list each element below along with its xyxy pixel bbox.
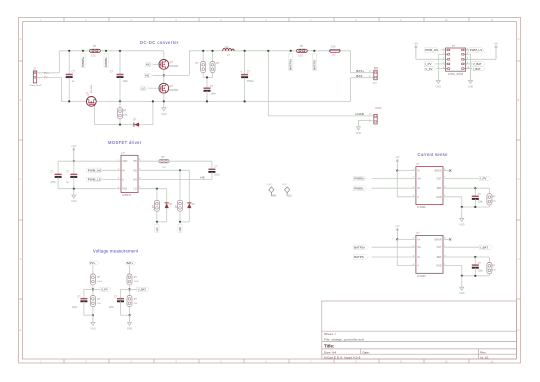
wire phase node (163, 69, 165, 83)
capacitor C6 driver bulk (73, 161, 75, 174)
svg-text:IRF4905: IRF4905 (91, 84, 93, 93)
svg-text:PWRS+: PWRS+ (354, 177, 365, 181)
svg-text:BAT-: BAT- (356, 74, 363, 78)
frame column ticks and numbers (63, 18, 65, 22)
resistor R bottom (BAT divider) (127, 296, 132, 307)
power symbol +5V (BAT side) (396, 228, 398, 239)
junction gnd net (461, 206, 463, 208)
global label PWRS+ (353, 176, 366, 180)
svg-text:Rev:: Rev: (480, 350, 486, 354)
svg-text:HI: HI (122, 169, 125, 172)
svg-text:100n: 100n (211, 93, 217, 96)
svg-text:100n: 100n (214, 174, 220, 177)
svg-text:PWRS-: PWRS- (104, 57, 108, 67)
transistor Q1 reverse-protection MOSFET (86, 97, 96, 107)
svg-text:V_BAT: V_BAT (473, 62, 482, 66)
wire LOAD branch (267, 51, 269, 116)
junction PWRS+ tap (82, 50, 84, 52)
power symbol +5V right (495, 46, 497, 60)
resistor R7 HO gate (178, 200, 183, 211)
capacitor C2 (119, 51, 121, 74)
svg-text:BATPS+: BATPS+ (354, 245, 365, 249)
svg-text:BATPS-: BATPS- (312, 59, 316, 70)
svg-text:OUT: OUT (437, 177, 443, 180)
svg-text:V-: V- (417, 265, 419, 268)
global label I_PV (479, 176, 491, 180)
svg-text:REF: REF (437, 187, 442, 190)
resistor R top (PV divider) (90, 274, 95, 285)
svg-text:100n: 100n (478, 201, 484, 204)
global label LO (vertical, to LS fet) (155, 224, 159, 232)
svg-text:+5V: +5V (414, 42, 419, 45)
svg-text:+5V: +5V (494, 42, 499, 45)
global label V_PV (93, 288, 100, 290)
junction HO pair bottom (179, 221, 181, 223)
svg-text:IN-: IN- (417, 187, 420, 190)
diode D3 HO gate (187, 202, 191, 204)
wire HS pin to bootstrap cap (138, 178, 212, 180)
junction R2 bottom (119, 124, 121, 126)
wire switch-node rail (189, 50, 350, 52)
junction LS source / gnd stub (163, 100, 165, 102)
svg-text:Q?: Q? (86, 92, 89, 96)
svg-text:GND: GND (161, 113, 167, 116)
svg-text:HO: HO (272, 194, 276, 198)
capacitor C5 driver bypass (57, 161, 59, 174)
wire to gnd (129, 307, 131, 316)
ground at LOAD (357, 120, 359, 126)
junction R4 top (211, 50, 213, 52)
resistor R5 bootstrap (159, 160, 169, 163)
global label I_BAT (479, 245, 492, 249)
wire LS source to rail (163, 93, 165, 101)
svg-text:GND: GND (459, 292, 465, 295)
svg-text:PWM_HS: PWM_HS (425, 48, 438, 52)
wire PV+ from J1 (37, 72, 60, 74)
wire gnd left (438, 53, 445, 55)
svg-text:+5V: +5V (395, 225, 400, 228)
no-connect on /SHDN (443, 238, 449, 240)
svg-text:LO: LO (133, 188, 136, 191)
capacitor C7 bootstrap (208, 168, 215, 170)
wire top rail PV+ (59, 50, 164, 52)
svg-text:GND: GND (71, 200, 77, 203)
ground driver (73, 189, 75, 195)
junction driver gnd (73, 188, 75, 190)
svg-text:V_BAT: V_BAT (138, 288, 147, 292)
resistor R4 snubber (212, 51, 214, 62)
wire OUT to label I_BAT (443, 246, 479, 248)
global label BATPS- (vertical) (312, 53, 316, 71)
wire gnd stub (92, 314, 94, 317)
diode D1 (133, 123, 135, 127)
inductor L1 (223, 48, 235, 50)
svg-text:REF: REF (437, 256, 442, 259)
capacitor C REF filter (PV side) (472, 195, 479, 197)
junction HO branch (179, 169, 181, 171)
wire VDD rail (58, 160, 121, 162)
svg-text:BAT: BAT (374, 67, 379, 70)
svg-text:HS: HS (133, 178, 137, 181)
wire bootstrap to C7 (169, 160, 212, 162)
power symbol +5V (PV side) (396, 160, 398, 171)
junction C3 top (244, 50, 246, 52)
svg-text:DC-DC converter: DC-DC converter (140, 40, 179, 45)
svg-text:MOSFET driver: MOSFET driver (108, 140, 142, 145)
resistor R6 LO gate (154, 200, 159, 211)
wire PV+ to divider (92, 265, 94, 274)
global label HS on phase (144, 73, 152, 77)
wire +5V left (416, 58, 446, 60)
svg-text:PWM_LS: PWM_LS (470, 48, 482, 52)
global label V_BAT (130, 288, 137, 290)
shunt resistor R_PV with kelvin taps (90, 49, 101, 52)
ground (BAT divider) (129, 316, 131, 322)
shunt resistor R_BAT with kelvin taps (297, 49, 308, 52)
wire V+ / V- supply (397, 238, 416, 240)
global label LO (LS gate) (141, 86, 149, 90)
svg-text:100n: 100n (72, 306, 78, 309)
junction phase node (163, 74, 165, 76)
svg-text:LT1999: LT1999 (417, 274, 426, 278)
svg-text:HO: HO (146, 63, 151, 67)
svg-text:Id: 1/1: Id: 1/1 (480, 355, 489, 359)
global label PWM_HS at connector (424, 48, 439, 52)
global label PWM_LS at connector (469, 48, 484, 52)
svg-text:D: D (20, 258, 22, 261)
svg-text:GND: GND (356, 132, 362, 135)
svg-text:LO: LO (155, 227, 159, 232)
junction divider bottom (128, 314, 130, 316)
svg-text:IN+: IN+ (417, 177, 421, 180)
svg-text:LT1999: LT1999 (417, 205, 426, 209)
svg-text:1500u: 1500u (247, 80, 255, 83)
wire driver gnd rail (58, 188, 121, 190)
svg-text:GND: GND (468, 85, 474, 88)
svg-text:Screw_01x02: Screw_01x02 (30, 85, 43, 87)
svg-text:GND: GND (436, 265, 442, 268)
junction divider bottom (92, 314, 94, 316)
power flag PFLG on HO (269, 187, 274, 193)
svg-text:Date:: Date: (363, 350, 370, 354)
svg-text:I_BAT: I_BAT (473, 67, 481, 71)
fuse F1 (330, 49, 341, 52)
wire PV+ riser (58, 51, 60, 73)
svg-text:VSS: VSS (122, 188, 127, 191)
no-connect on /SHDN (443, 170, 449, 172)
junction R3 top (202, 50, 204, 52)
svg-text:PWM_LS: PWM_LS (88, 178, 101, 182)
transistor Q4 low-side MOSFET (159, 83, 169, 93)
power symbol +12V (73, 148, 75, 161)
svg-text:HB: HB (133, 160, 137, 163)
global label HO (vertical, to HS fet) (178, 224, 182, 232)
svg-text:/SHDN: /SHDN (434, 170, 442, 173)
svg-text:BATPS+: BATPS+ (289, 58, 293, 70)
wire gnd right (466, 53, 471, 55)
junction V+ rail (396, 170, 398, 172)
title block (322, 301, 517, 359)
svg-text:Current sense: Current sense (418, 152, 449, 157)
svg-text:100n: 100n (109, 306, 115, 309)
svg-text:/SHDN: /SHDN (434, 238, 442, 241)
global label I_BAT at connector (472, 66, 485, 70)
svg-text:0.01: 0.01 (91, 55, 96, 58)
svg-text:V_PV: V_PV (101, 288, 108, 292)
svg-text:KiCad E.D.A. kicad 4.0.6: KiCad E.D.A. kicad 4.0.6 (324, 355, 361, 359)
wire REF filter (443, 187, 489, 189)
svg-text:Title:: Title: (324, 344, 335, 349)
svg-text:I_BAT: I_BAT (480, 245, 488, 249)
wire HO gate drive (138, 169, 189, 171)
ground (BAT side) (461, 281, 463, 287)
svg-text:100n: 100n (123, 80, 129, 83)
svg-text:HO: HO (133, 169, 137, 172)
svg-text:OUT: OUT (437, 246, 443, 249)
svg-text:LOAD: LOAD (375, 107, 382, 110)
svg-text:22u: 22u (225, 45, 230, 49)
svg-text:100n: 100n (50, 181, 56, 184)
global label PWRS+ (vertical) (81, 53, 85, 68)
junction REF cap (474, 187, 476, 189)
junction cap bottom (474, 206, 476, 208)
capacitor C4 snubber (204, 87, 211, 89)
svg-text:LO: LO (288, 194, 291, 198)
svg-text:C: C (20, 178, 22, 181)
wire HO pair join (180, 221, 189, 223)
junction LO pair bottom (156, 221, 158, 223)
wire +5V right (466, 58, 496, 60)
junction gate-pullup to rail (152, 100, 154, 102)
ground left of connector (437, 74, 439, 80)
global label PV+ (89, 261, 99, 265)
wire GND pin joins filter bottom (443, 265, 462, 267)
wire V+ / V- supply (397, 170, 416, 172)
svg-text:C: C (518, 178, 520, 181)
svg-text:VDD: VDD (122, 160, 127, 163)
ground (PV side) (461, 212, 463, 218)
svg-text:FLG?: FLG? (282, 184, 288, 186)
global label PWRS- (vertical) (104, 53, 108, 68)
junction C3 bottom (244, 100, 246, 102)
wire LO gate drive (138, 188, 167, 190)
junction BATPS- tap (313, 50, 315, 52)
svg-text:GND: GND (436, 196, 442, 199)
resistor R REF load (PV side) (488, 188, 490, 194)
global label PWM_LS (87, 177, 103, 181)
svg-text:GND: GND (90, 327, 96, 330)
connector P1 controller header 2x5 (446, 48, 466, 71)
junction cap bottom (474, 275, 476, 277)
connector BAT screw terminal (374, 70, 377, 80)
op-amp U1 gate driver LM5107 (121, 155, 138, 192)
ground right of connector (470, 74, 472, 80)
global label I_PV at connector (424, 62, 436, 66)
junction REF cap (474, 256, 476, 258)
svg-text:HO: HO (178, 226, 182, 231)
junction C1 bottom (68, 100, 70, 102)
global label HO (HS gate) (145, 62, 153, 66)
power symbol +5V left (415, 46, 417, 60)
svg-text:File: charge_controller.sch: File: charge_controller.sch (324, 337, 364, 341)
svg-text:+5V: +5V (395, 156, 400, 159)
svg-text:IN-: IN- (417, 256, 420, 259)
global label BAT+ (126, 261, 136, 265)
global label PWM_HS (87, 168, 103, 172)
wire BAT- return (351, 77, 374, 79)
svg-text:IRF2805: IRF2805 (170, 90, 180, 92)
svg-text:15A: 15A (331, 45, 336, 48)
capacitor C filter (BAT divider) (121, 288, 130, 290)
connector J1 PV input (33, 71, 36, 83)
svg-text:Sheet: /: Sheet: / (324, 332, 336, 336)
capacitor C filter (PV divider) (84, 288, 93, 290)
svg-text:I_PV: I_PV (480, 177, 487, 181)
wire to BAT+ (350, 51, 352, 73)
svg-text:I_PV: I_PV (425, 62, 432, 66)
svg-text:LM5107: LM5107 (122, 193, 132, 197)
svg-text:Voltage measurement: Voltage measurement (93, 248, 139, 253)
capacitor C3 output (244, 51, 246, 75)
junction PWRS- tap (105, 50, 107, 52)
global label BATPS+ (vertical) (289, 53, 293, 71)
wire REF filter (443, 256, 489, 258)
global label BATPS- (353, 255, 368, 259)
svg-text:PWRS-: PWRS- (354, 186, 364, 190)
svg-text:GND: GND (127, 327, 133, 330)
wire PV- from J1 (37, 77, 62, 79)
resistor R bottom (PV divider) (90, 296, 95, 307)
wire HB pin to bootstrap resistor (138, 160, 159, 162)
wire phase to switch rail (164, 74, 190, 76)
junction snubber mid (206, 76, 208, 78)
svg-text:BATPS-: BATPS- (354, 255, 364, 259)
svg-text:PWM_HS: PWM_HS (88, 168, 102, 172)
frame row ticks and letters (19, 60, 23, 62)
connector LOAD screw terminal (374, 114, 377, 124)
junction C2 bottom (119, 100, 121, 102)
svg-text:CONN_02X05: CONN_02X05 (448, 73, 464, 76)
resistor R2 gate pull (119, 101, 121, 107)
global label V_BAT at connector (472, 62, 485, 66)
junction LO branch (156, 188, 158, 190)
global label PWRS- (353, 186, 366, 190)
wire bottom rail GND (62, 100, 87, 102)
svg-text:GND: GND (459, 223, 465, 226)
junction divider node (128, 288, 130, 290)
svg-text:+12V: +12V (71, 145, 77, 148)
ground at LS source (163, 101, 165, 107)
svg-text:GND: GND (436, 85, 442, 88)
wire snubber join (203, 76, 212, 78)
svg-text:D: D (518, 258, 520, 261)
junction gnd net (461, 275, 463, 277)
wire gnd stub (129, 314, 131, 317)
global label BATPS+ (353, 245, 368, 249)
junction V+ rail (396, 238, 398, 240)
svg-text:100n: 100n (478, 269, 484, 272)
wire divider node (129, 285, 131, 296)
svg-text:PWRS+: PWRS+ (81, 56, 85, 67)
ground (PV divider) (92, 316, 94, 322)
wire to gnd (92, 307, 94, 316)
wire OUT to label I_PV (443, 177, 479, 179)
svg-text:PV+: PV+ (90, 261, 96, 265)
capacitor C REF filter (BAT side) (472, 264, 479, 266)
svg-text:HS: HS (201, 176, 205, 180)
svg-text:IN+: IN+ (417, 246, 421, 249)
svg-text:0.01: 0.01 (298, 55, 303, 58)
resistor R REF load (BAT side) (488, 257, 490, 263)
wire PV- drop (61, 78, 63, 102)
svg-text:IRF2805: IRF2805 (170, 66, 180, 68)
power flag PFLG on LO (285, 187, 290, 193)
svg-text:BAT+: BAT+ (127, 261, 134, 265)
junction C1 top (68, 50, 70, 52)
wire LOAD- to ground (358, 119, 373, 121)
global label V_PV at connector (424, 66, 436, 70)
junction C2 top (119, 50, 121, 52)
svg-text:LI: LI (122, 178, 124, 181)
svg-text:V-: V- (417, 196, 419, 199)
wire LO pair join (157, 221, 167, 223)
svg-text:V_PV: V_PV (425, 67, 432, 71)
op-amp U2 current sense LT1999 (PV side) (416, 167, 443, 205)
junction divider node (92, 288, 94, 290)
wire divider node (92, 285, 94, 296)
resistor R3 snubber (202, 51, 204, 62)
svg-text:Size: A4: Size: A4 (324, 350, 336, 354)
diode D2 LO gate (165, 202, 169, 204)
svg-text:BAT+: BAT+ (356, 69, 364, 73)
svg-text:LOAD: LOAD (356, 112, 365, 116)
junction C4 bottom (206, 100, 208, 102)
transistor Q3 high-side MOSFET (163, 51, 165, 60)
junction BATPS+ tap (290, 50, 292, 52)
wire Q1 gate network (94, 106, 96, 125)
junction LOAD tap (267, 50, 269, 52)
resistor R top (BAT divider) (127, 274, 132, 285)
wire GND pin joins filter bottom (443, 196, 462, 198)
svg-text:FLG?: FLG? (267, 184, 273, 186)
op-amp U3 current sense LT1999 (BAT side) (416, 235, 443, 273)
junction +12V rail (73, 160, 75, 162)
capacitor C1 input (68, 51, 70, 74)
svg-text:HS: HS (145, 74, 149, 78)
wire BAT+ to divider (129, 265, 131, 274)
